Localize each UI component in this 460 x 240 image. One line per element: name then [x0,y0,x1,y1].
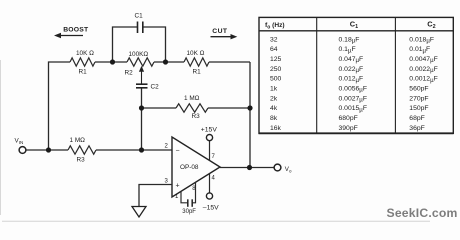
svg-text:0.018µF: 0.018µF [409,36,434,44]
svg-text:10K Ω: 10K Ω [187,50,205,57]
svg-text:C1: C1 [350,20,358,31]
terminal -15V (pin 4) [203,174,219,212]
label CUT with right arrow [211,28,238,40]
svg-text:125: 125 [270,56,282,63]
svg-text:−: − [176,148,180,155]
svg-text:OP-08: OP-08 [180,164,199,171]
svg-text:30pF: 30pF [182,209,196,215]
svg-text:BOOST: BOOST [63,27,89,34]
svg-text:36pF: 36pF [409,125,425,132]
svg-text:0.0015µF: 0.0015µF [339,105,367,113]
svg-text:560pF: 560pF [409,86,428,93]
svg-text:16k: 16k [270,125,282,132]
svg-text:1k: 1k [270,86,278,93]
svg-text:150pF: 150pF [409,105,428,112]
table of component values [259,17,454,133]
svg-text:680pF: 680pF [339,115,358,122]
svg-text:+: + [176,183,180,190]
junction node feedback right [247,105,252,110]
resistor R1 (left 10K) [70,50,95,76]
scan edge artifacts [0,60,2,215]
svg-text:250: 250 [270,66,282,73]
wire: right vertical line [249,62,251,168]
label BOOST with left arrow [54,27,89,39]
junction node feedback left [139,105,144,110]
svg-text:C1: C1 [135,13,144,20]
svg-text:0.022µF: 0.022µF [339,66,364,74]
terminal Vo [274,164,292,173]
junction node output [247,165,252,170]
svg-text:2k: 2k [270,95,278,102]
capacitor 30pF (pins 1-8) [181,182,196,215]
svg-text:R2: R2 [125,70,134,77]
wire: main top line segments [49,62,251,150]
wire: Vin input line [26,149,172,151]
svg-text:2: 2 [165,144,169,150]
svg-text:64: 64 [270,46,278,53]
wire: C2 branch vertical [141,88,143,151]
svg-text:0.01µF: 0.01µF [409,46,430,54]
svg-text:–15V: –15V [203,204,219,211]
svg-text:R3: R3 [192,113,201,120]
svg-text:R1: R1 [193,69,202,76]
resistor R3 (1M input) [68,137,96,164]
svg-text:4: 4 [212,176,216,182]
svg-text:0.012µF: 0.012µF [339,76,364,84]
svg-text:0.047µF: 0.047µF [339,56,364,64]
svg-text:0.0012µF: 0.0012µF [409,76,437,84]
svg-text:1: 1 [175,194,179,200]
svg-text:R3: R3 [77,157,86,164]
svg-text:7: 7 [212,154,216,160]
svg-text:CUT: CUT [212,28,228,35]
svg-text:SeekIC.com: SeekIC.com [387,206,458,220]
junction node C1 left / top line [110,59,115,64]
wire: output line [220,167,274,169]
svg-text:68pF: 68pF [409,115,425,122]
svg-text:VIN: VIN [15,138,24,145]
svg-text:32: 32 [270,36,278,43]
junction node Vin / left branch [46,147,51,152]
wire: pin 3 to ground [139,185,172,207]
svg-text:0.0056µF: 0.0056µF [339,86,367,94]
svg-text:R1: R1 [79,69,88,76]
svg-text:1 MΩ: 1 MΩ [184,95,200,102]
terminal +15V (pin 7) [201,127,218,161]
junction node C1 right / top line [163,59,168,64]
ground [132,207,146,218]
wire: feedback line (1M) [142,107,251,109]
svg-text:4k: 4k [270,105,278,112]
svg-text:C2: C2 [427,20,435,31]
svg-text:0.0022µF: 0.0022µF [409,66,437,74]
svg-text:100KΩ: 100KΩ [129,51,149,58]
svg-text:1 MΩ: 1 MΩ [70,137,86,144]
capacitor C1 [113,13,166,63]
svg-text:+15V: +15V [201,127,218,134]
resistor R1 (right 10K) [184,50,209,76]
svg-text:500: 500 [270,76,282,83]
svg-text:C2: C2 [151,84,160,91]
svg-text:390pF: 390pF [339,125,358,132]
potentiometer R2 (100K) [125,51,155,85]
terminal Vin [15,138,26,154]
junction node C2 / Vin line [139,147,144,152]
capacitor C2 [136,84,159,91]
svg-text:0.0047µF: 0.0047µF [409,56,437,64]
op-amp U1 OP-08 [165,137,221,200]
svg-text:8k: 8k [270,115,278,122]
svg-text:Vo: Vo [285,166,292,173]
svg-text:0.18µF: 0.18µF [339,36,360,44]
svg-text:0.0027µF: 0.0027µF [339,95,367,103]
svg-text:3: 3 [165,179,169,185]
resistor R3 (1M feedback) [176,95,208,120]
svg-text:270pF: 270pF [409,95,428,102]
svg-text:10K Ω: 10K Ω [76,50,94,57]
svg-text:fo (Hz): fo (Hz) [265,22,285,31]
svg-text:0.1µF: 0.1µF [339,46,356,54]
